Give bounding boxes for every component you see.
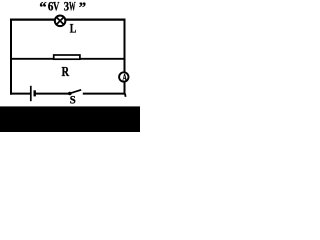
wire left — [10, 19, 12, 95]
wire bottom right — [83, 93, 125, 95]
svg-text:”: ” — [79, 0, 86, 16]
lamp L — [55, 15, 66, 26]
wire middle branch — [11, 58, 125, 60]
svg-text:S: S — [70, 94, 76, 107]
battery cell — [31, 86, 35, 101]
resistor R — [54, 55, 80, 59]
svg-text:“: “ — [39, 0, 46, 16]
svg-text:W: W — [69, 0, 76, 14]
junction tail at bottom-right corner — [124, 94, 127, 97]
wire right — [124, 19, 126, 95]
svg-text:R: R — [62, 64, 70, 79]
svg-text:A: A — [122, 73, 127, 84]
svg-text:V: V — [53, 0, 60, 14]
wire bottom middle — [36, 93, 69, 95]
ammeter A — [119, 72, 128, 84]
wire bottom left — [10, 93, 30, 95]
wire top — [10, 19, 126, 21]
label "6V 3W" rating — [39, 0, 86, 16]
svg-text:L: L — [70, 21, 77, 35]
switch S — [68, 90, 81, 95]
